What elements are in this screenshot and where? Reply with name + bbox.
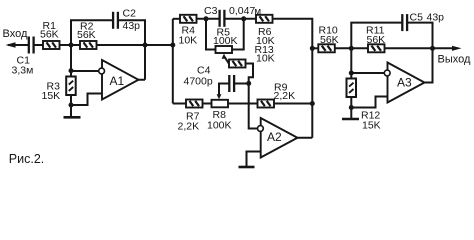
- wire R12 bottom to ground node: [350, 97, 352, 108]
- svg-text:Выход: Выход: [438, 54, 471, 66]
- ground A1: [64, 105, 81, 117]
- svg-text:0,047: 0,047: [229, 5, 255, 17]
- junction A3 inverting tee: [349, 71, 354, 76]
- svg-text:Вход: Вход: [3, 28, 28, 40]
- svg-text:56K: 56K: [367, 34, 386, 46]
- wire R11 to output node: [385, 47, 433, 49]
- svg-text:3,3м: 3,3м: [12, 65, 34, 77]
- label C5 43p: [410, 12, 445, 24]
- junction R5 left column: [204, 16, 209, 21]
- node input terminal: [6, 42, 29, 47]
- resistor R13: [229, 60, 246, 68]
- wire R5 right vertical: [232, 19, 244, 50]
- label R6 10K: [256, 26, 275, 47]
- wire ground node to A1 non-inverting input: [71, 94, 102, 106]
- node A junction: [69, 43, 74, 48]
- svg-text:15K: 15K: [362, 120, 381, 132]
- label R7 2,2K: [178, 111, 200, 133]
- resistor R4: [180, 15, 197, 23]
- wire R1 to node A: [60, 44, 81, 46]
- label 0,047м: [229, 5, 261, 17]
- wire A3 output up: [425, 48, 433, 82]
- wire A2 non-inverting input to ground: [247, 152, 261, 167]
- resistor R1: [43, 41, 60, 49]
- junction output node: [430, 46, 435, 51]
- wire stage2 left rail: [172, 19, 174, 104]
- wire bottom row left: [173, 103, 186, 105]
- op-amp A3: [384, 63, 424, 103]
- wire R6 to feedback column: [273, 19, 313, 138]
- potentiometer R8: [212, 100, 229, 108]
- junction feedback column row: [310, 101, 315, 106]
- capacitor C5: [402, 14, 407, 31]
- wire R3 bottom to ground node: [70, 95, 72, 105]
- svg-text:Рис.2.: Рис.2.: [9, 152, 44, 166]
- wire C1 to R1: [34, 44, 43, 46]
- wire node A down to inverting input: [70, 45, 72, 77]
- capacitor C3: [220, 10, 225, 27]
- label R11 56K: [366, 25, 385, 47]
- resistor R6: [256, 15, 273, 23]
- resistor R9: [258, 100, 275, 108]
- wire C2 feedback rail: [71, 20, 113, 45]
- op-amp A1: [99, 60, 139, 100]
- wire C4 left to R8 wiper: [219, 84, 229, 96]
- wire C4 right to node B: [234, 83, 249, 85]
- svg-text:2,2K: 2,2K: [274, 90, 296, 102]
- capacitor C2: [113, 12, 118, 29]
- resistor R10: [318, 44, 335, 52]
- wire R2 to A1 output column: [97, 44, 173, 46]
- wire node B down to A2 inverting input: [249, 83, 258, 128]
- label R8 100K: [207, 109, 232, 132]
- svg-text:100K: 100K: [213, 35, 238, 47]
- label R9 2,2K: [274, 82, 296, 103]
- svg-text:15K: 15K: [42, 90, 61, 102]
- junction stage3 input node: [310, 46, 315, 51]
- svg-text:43p: 43p: [123, 20, 141, 32]
- svg-text:4700p: 4700p: [184, 76, 213, 88]
- R8 wiper arrow: [217, 94, 222, 99]
- label R1 56K: [40, 20, 59, 41]
- svg-text:A1: A1: [110, 74, 125, 88]
- wire R9 to feedback column: [274, 103, 312, 105]
- svg-text:56K: 56K: [77, 29, 96, 41]
- wire R7 to R8: [203, 103, 212, 105]
- resistor R2: [80, 41, 97, 49]
- junction main wire to stage2 rail: [170, 43, 175, 48]
- capacitor C4: [229, 75, 234, 92]
- wire ground node to A3 non-inverting input: [351, 97, 387, 108]
- wire to A3 inverting input: [351, 72, 384, 74]
- label R10 56K: [319, 25, 339, 47]
- wire R5 left vertical: [206, 19, 216, 50]
- capacitor C1: [29, 37, 34, 54]
- ground A2: [239, 166, 255, 169]
- resistor R7: [186, 100, 203, 108]
- junction inverting tee: [69, 68, 74, 73]
- wire R4 to C3: [197, 18, 220, 20]
- wire A1 output: [139, 79, 146, 81]
- junction A1 output column: [143, 43, 148, 48]
- wire to A1 inverting input: [71, 70, 99, 72]
- svg-text:C2: C2: [123, 8, 137, 20]
- ground A3: [342, 108, 359, 120]
- label R12 15K: [361, 110, 381, 132]
- label R3 15K: [42, 81, 61, 102]
- label R2 56K: [77, 21, 96, 41]
- resistor R11: [368, 44, 385, 52]
- label R5 100K: [213, 27, 238, 48]
- op-amp A2: [258, 118, 298, 158]
- svg-text:C3: C3: [204, 5, 218, 17]
- resistor R12: [347, 79, 357, 98]
- wire R13 to node B: [246, 64, 254, 84]
- svg-text:10K: 10K: [256, 53, 275, 65]
- svg-text:A2: A2: [267, 130, 282, 144]
- svg-text:2,2K: 2,2K: [178, 121, 200, 133]
- label R4 10K: [179, 25, 198, 47]
- wire C3 to R6: [224, 18, 256, 20]
- svg-text:43p: 43p: [427, 12, 445, 24]
- resistor R3: [66, 77, 76, 96]
- wire C5 rail left: [351, 23, 402, 49]
- wire R8 to R9: [228, 103, 258, 105]
- wire C2 right to A1 output column: [118, 20, 145, 79]
- node B junction: [246, 81, 251, 86]
- svg-text:100K: 100K: [207, 120, 232, 132]
- svg-text:C5: C5: [410, 12, 424, 24]
- wire R10 to R11: [335, 47, 368, 49]
- junction C5 left node: [349, 46, 354, 51]
- wire top row start: [173, 18, 180, 20]
- svg-text:10K: 10K: [179, 34, 198, 46]
- label C1 3,3м: [12, 55, 34, 77]
- wire C5 node down to A3 inverting input: [350, 48, 352, 79]
- label R13 10K: [255, 44, 275, 65]
- potentiometer R5: [216, 46, 233, 53]
- label C2 43p: [123, 8, 141, 32]
- label C4 4700p: [184, 65, 213, 88]
- wire stage3 row: [312, 47, 318, 49]
- svg-text:56K: 56K: [40, 29, 59, 41]
- junction R12 ground node: [349, 105, 354, 110]
- svg-text:A3: A3: [397, 76, 412, 90]
- node output terminal: [433, 46, 462, 51]
- wire A2 output: [298, 137, 313, 139]
- svg-text:56K: 56K: [320, 34, 339, 46]
- junction ground node: [69, 103, 74, 108]
- junction R5 right column: [241, 16, 246, 21]
- wire C5 rail right: [407, 23, 432, 49]
- R5 wiper arrow: [222, 54, 229, 64]
